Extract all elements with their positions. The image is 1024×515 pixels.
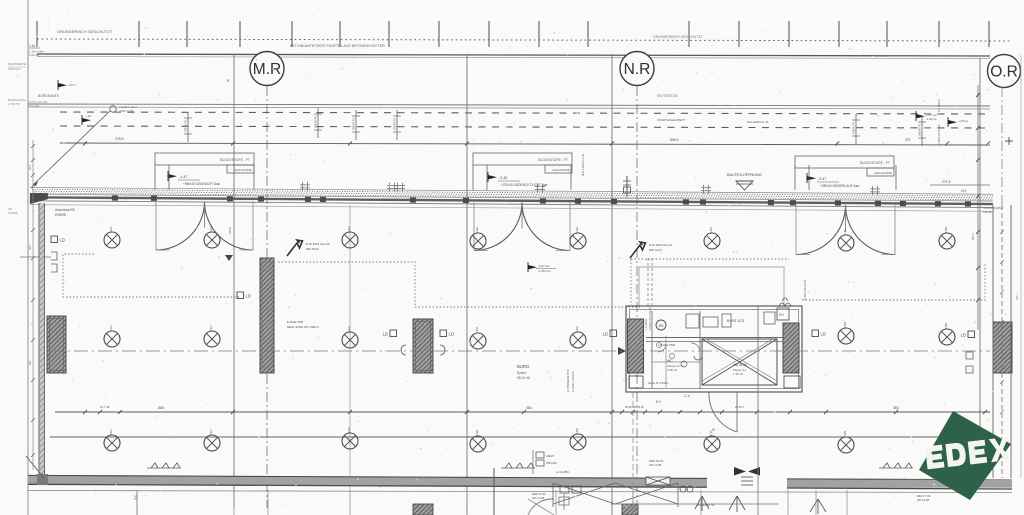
svg-text:GESCHOSSE: GESCHOSSE bbox=[552, 168, 570, 172]
svg-text:98.10 m2: 98.10 m2 bbox=[517, 376, 531, 380]
svg-text:LD: LD bbox=[961, 333, 966, 338]
window hash mark x=305 bbox=[300, 182, 310, 191]
basin circles bbox=[657, 343, 662, 348]
lamp 1 r1 x=112 bbox=[104, 226, 120, 249]
svg-text:-1.47: -1.47 bbox=[179, 175, 187, 179]
exterior north wall band bbox=[30, 180, 993, 211]
pier column P2 bbox=[260, 258, 274, 373]
ceiling outline over core bbox=[631, 258, 789, 260]
main dimension chain bbox=[60, 137, 990, 146]
window hash mark x=706 bbox=[701, 185, 711, 194]
below-wall pier 1 bbox=[413, 504, 433, 515]
svg-text:GRUNDERISCH GESCHUTZT: GRUNDERISCH GESCHUTZT bbox=[57, 29, 113, 34]
south-west corner block bbox=[37, 474, 48, 485]
svg-text:BETONKANTE/TIEFE FUNFTEL AUS B: BETONKANTE/TIEFE FUNFTEL AUS BETONDECK/C… bbox=[290, 44, 385, 48]
door jamb line x=896 bbox=[895, 165, 897, 190]
svg-text:M24 4 3/0x2.0 2.35: M24 4 3/0x2.0 2.35 bbox=[581, 153, 585, 176]
door jamb line x=473 bbox=[472, 165, 474, 190]
door jamb line x=487 bbox=[486, 165, 488, 190]
level flag door 3 bbox=[807, 173, 816, 183]
strong vertical x=494 bbox=[493, 468, 495, 515]
svg-text:SOKRATESWEG: SOKRATESWEG bbox=[983, 206, 1003, 210]
svg-text:279: 279 bbox=[905, 138, 911, 142]
interior dimension chain bbox=[55, 405, 990, 414]
wall junction block x=258 bbox=[258, 196, 264, 201]
south wall base line bbox=[28, 491, 1012, 493]
small arrow marker at grid M jamb bbox=[225, 255, 233, 261]
svg-text:BLOCKSTUFE - FT: BLOCKSTUFE - FT bbox=[220, 158, 250, 162]
svg-text:MS: MS bbox=[658, 324, 664, 328]
wall junction block x=112 bbox=[112, 195, 118, 200]
WC core west niche box bbox=[629, 376, 643, 388]
axis M.R dashed centerline bbox=[266, 86, 268, 508]
svg-text:4.7M/7Y8: 4.7M/7Y8 bbox=[8, 102, 20, 106]
svg-text:OK=-0.08: OK=-0.08 bbox=[532, 496, 544, 500]
svg-text:1.14: 1.14 bbox=[29, 44, 35, 48]
LD outlet left wall bbox=[51, 236, 65, 243]
left margin line bbox=[27, 0, 29, 515]
service zone rect above core bbox=[639, 267, 784, 306]
stub vertical x=701 bbox=[700, 490, 702, 515]
svg-text:M.R: M.R bbox=[253, 61, 281, 78]
svg-text:-2.40: -2.40 bbox=[499, 176, 507, 180]
svg-text:BURO: BURO bbox=[517, 364, 530, 369]
fork symbol 3 bbox=[695, 496, 709, 511]
lamp 5 r1 x=947 bbox=[939, 227, 955, 250]
svg-text:E-ROE 35/8: E-ROE 35/8 bbox=[287, 320, 304, 324]
svg-text:298.40 PN: 298.40 PN bbox=[393, 118, 397, 130]
wall junction block x=151 bbox=[151, 196, 157, 201]
step mark x=505 bbox=[501, 463, 535, 468]
svg-text:REAL 30/40 OK=-600.2: REAL 30/40 OK=-600.2 bbox=[287, 325, 319, 329]
EDEX watermark diamond bbox=[919, 411, 1011, 500]
lamp 1 r3 x=350 bbox=[342, 427, 358, 450]
wall bracket symbols left bbox=[51, 252, 57, 260]
svg-text:WA 25.96: WA 25.96 bbox=[733, 363, 747, 367]
property boundary line bbox=[37, 54, 990, 56]
lamp 1 r2 x=112 bbox=[104, 325, 120, 348]
svg-text:308 K/0Z: 308 K/0Z bbox=[546, 461, 557, 465]
WC axis vertical bbox=[757, 306, 759, 515]
lamp 3 r1 x=478 bbox=[470, 227, 486, 250]
core door arc bbox=[709, 392, 737, 432]
svg-text:67M/98: 67M/98 bbox=[55, 213, 66, 217]
svg-text:A: A bbox=[709, 430, 712, 435]
svg-text:BORDKANTE: BORDKANTE bbox=[38, 94, 60, 98]
lamp axis dash-dot line bbox=[50, 350, 990, 352]
pier right edge P6 bbox=[993, 322, 1012, 373]
riser dashed pair bbox=[647, 258, 649, 306]
svg-text:46 36 29a 16 40: 46 36 29a 16 40 bbox=[625, 405, 644, 409]
door jamb line x=254 bbox=[253, 165, 255, 190]
svg-text:GESCHOSSE: GESCHOSSE bbox=[234, 168, 252, 172]
svg-text:BLOCKSTUFE - FT: BLOCKSTUFE - FT bbox=[860, 161, 890, 165]
svg-text:OK=-0.08: OK=-0.08 bbox=[649, 463, 661, 467]
X-box on wall bbox=[646, 477, 670, 485]
svg-text:E.V: E.V bbox=[656, 400, 662, 404]
svg-text:+10: +10 bbox=[86, 114, 91, 118]
svg-text:-2.47: -2.47 bbox=[818, 177, 826, 181]
corner arc mark bbox=[528, 499, 554, 515]
door jamb line x=809 bbox=[808, 165, 810, 190]
svg-text:278.5: 278.5 bbox=[115, 137, 124, 141]
svg-text:298.40 PN: 298.40 PN bbox=[184, 120, 188, 132]
lamp 1 r3 x=212 bbox=[204, 429, 220, 452]
core interior partition lines bbox=[651, 311, 653, 389]
stub vertical x=268 bbox=[267, 490, 269, 515]
lamp row 3 line bbox=[50, 436, 990, 438]
stub vertical x=556 bbox=[555, 490, 557, 515]
stub vertical x=633 bbox=[632, 490, 634, 515]
door jamb line x=169 bbox=[168, 165, 170, 190]
hash cluster above band x=627 bbox=[623, 176, 631, 197]
svg-text:0.68 m2: 0.68 m2 bbox=[667, 368, 678, 372]
svg-text:298.40 PN: 298.40 PN bbox=[918, 124, 922, 136]
svg-text:1.35 m2: 1.35 m2 bbox=[733, 372, 744, 376]
entrance threshold line bbox=[611, 503, 779, 505]
svg-text:90: 90 bbox=[226, 78, 230, 82]
svg-text:LD: LD bbox=[246, 294, 251, 299]
stub vertical x=816 bbox=[815, 490, 817, 515]
svg-text:B 30/4.140 A3.05: B 30/4.140 A3.05 bbox=[803, 280, 807, 300]
annotation cluster E-W 3022 bbox=[630, 242, 646, 258]
grid vertical M (solid) bbox=[233, 54, 235, 508]
MS symbol bbox=[656, 320, 666, 330]
west exterior wall bbox=[38, 203, 40, 474]
double door swing 3 bbox=[796, 205, 846, 255]
svg-text:384: 384 bbox=[526, 406, 532, 410]
svg-text:-2.67 am: -2.67 am bbox=[538, 264, 550, 268]
wall junction block x=790 bbox=[790, 200, 796, 205]
svg-text:CH: CH bbox=[961, 189, 966, 193]
svg-text:+950/40 GEDRUCKT Aaa: +950/40 GEDRUCKT Aaa bbox=[183, 182, 220, 186]
east wall dimension ticks bbox=[1000, 230, 1004, 234]
axis circle O.R bbox=[988, 55, 1021, 88]
stub vertical x=467 bbox=[466, 490, 468, 515]
wall junction block x=611 bbox=[611, 199, 617, 204]
street centerline (dashed) lower bbox=[60, 126, 985, 128]
shaft with cross bracing bbox=[702, 339, 777, 385]
stub vertical x=788 bbox=[787, 490, 789, 515]
wall junction block x=768 bbox=[768, 200, 774, 205]
hanging boxes below wall left of entrance bbox=[560, 486, 569, 493]
secondary dimension right bbox=[930, 184, 990, 186]
svg-text:2.35x2.05 D.35a: 2.35x2.05 D.35a bbox=[937, 124, 941, 145]
svg-text:+10 m: +10 m bbox=[68, 83, 77, 87]
south wall east segment bbox=[787, 479, 1012, 489]
corner diagonal tick bbox=[26, 456, 44, 478]
svg-text:LD: LD bbox=[60, 238, 65, 243]
window hash mark x=875 bbox=[870, 186, 880, 195]
svg-text:29 30 4: 29 30 4 bbox=[735, 405, 744, 409]
wall junction block x=965 bbox=[965, 201, 971, 206]
level flag door 1 bbox=[168, 171, 177, 181]
window hash mark x=540 bbox=[535, 184, 545, 193]
svg-text:E-W 3022 04+1/2: E-W 3022 04+1/2 bbox=[649, 243, 673, 247]
svg-text:BLOCKSTUFE - FT: BLOCKSTUFE - FT bbox=[538, 158, 568, 162]
svg-text:Anschluss EB: Anschluss EB bbox=[55, 208, 75, 212]
WC core east niche box bbox=[784, 376, 800, 388]
survey dotted line with station ticks bbox=[37, 21, 1010, 48]
grid vertical mid (solid) bbox=[466, 54, 468, 515]
survey mark cluster x=922 bbox=[918, 116, 927, 146]
squiggle vent symbols bbox=[779, 303, 791, 306]
wall junction block x=835 bbox=[835, 200, 841, 205]
survey mark cluster x=397 bbox=[393, 110, 402, 140]
south exterior wall west segment bbox=[28, 476, 707, 488]
svg-text:7.51 NN: 7.51 NN bbox=[29, 104, 39, 108]
door bowtie symbol bbox=[734, 467, 760, 476]
entrance dashed axis bbox=[632, 392, 634, 515]
svg-text:E-W 3021 04+1/2: E-W 3021 04+1/2 bbox=[306, 242, 330, 246]
grid vertical N (solid) bbox=[611, 54, 613, 515]
lamp 2 r2 x=478 bbox=[470, 327, 486, 350]
svg-text:CH: CH bbox=[779, 313, 784, 317]
lamp 1 r1 x=350 bbox=[342, 226, 358, 249]
svg-text:I-Profile 55/8: I-Profile 55/8 bbox=[658, 343, 675, 347]
fork symbol 1 bbox=[729, 496, 745, 512]
plus mark right bbox=[1005, 140, 1013, 142]
svg-text:+280/40 NIEDERLAUF Aaa: +280/40 NIEDERLAUF Aaa bbox=[820, 184, 859, 188]
survey mark cluster x=318 bbox=[314, 108, 323, 138]
svg-text:A 2.30x2.0: A 2.30x2.0 bbox=[937, 98, 941, 112]
right vertical dimension chain bbox=[937, 85, 980, 330]
flag cluster right 2 bbox=[948, 117, 957, 127]
svg-text:BODENST 02: BODENST 02 bbox=[697, 503, 715, 507]
window hash mark x=400 bbox=[395, 183, 405, 192]
svg-text:A-LINE 1.5x3.05: A-LINE 1.5x3.05 bbox=[571, 371, 575, 392]
entrance X-brace left bbox=[553, 483, 615, 507]
svg-text:B+ES 1CS: B+ES 1CS bbox=[727, 319, 745, 323]
svg-text:KANTE: KANTE bbox=[983, 210, 992, 214]
fixture row along core top bbox=[686, 314, 699, 328]
survey mark cluster x=356 bbox=[352, 110, 361, 140]
BLOCKSTUFE box 3 bbox=[795, 156, 894, 176]
double door swing 1 bbox=[156, 202, 205, 251]
suspended ceiling outline main room bbox=[278, 262, 640, 307]
svg-text:281.7: 281.7 bbox=[1015, 293, 1019, 300]
wall junction block x=900 bbox=[900, 201, 906, 206]
svg-text:OK=-0.28: OK=-0.28 bbox=[917, 498, 929, 502]
step mark x=151 bbox=[147, 463, 181, 468]
axis circle M.R bbox=[250, 52, 284, 86]
street centerline (dashed) upper bbox=[60, 112, 985, 114]
double circle on base line bbox=[680, 486, 686, 492]
stub vertical x=234 bbox=[233, 490, 235, 515]
svg-text:C.V: C.V bbox=[684, 394, 691, 398]
light vertical x=350 bbox=[349, 205, 351, 490]
svg-text:298.40 PN: 298.40 PN bbox=[314, 116, 318, 128]
svg-text:SPARTENHEIZBETT: SPARTENHEIZBETT bbox=[657, 118, 686, 122]
wall junction block x=700 bbox=[700, 199, 706, 204]
wall junction block x=540 bbox=[540, 198, 546, 203]
svg-text:SICHTKANTE: SICHTKANTE bbox=[8, 62, 26, 66]
svg-text:300 SC/3: 300 SC/3 bbox=[306, 247, 319, 251]
svg-text:1.51 NN: 1.51 NN bbox=[29, 53, 39, 57]
svg-text:1-0.9h/29: 1-0.9h/29 bbox=[644, 318, 648, 330]
EDEX watermark text (drawn glyphs) bbox=[925, 437, 1011, 469]
wall junction block x=227 bbox=[227, 196, 233, 201]
svg-text:O.R: O.R bbox=[990, 64, 1018, 81]
level flag door 2 bbox=[488, 172, 497, 182]
door jamb line x=155 bbox=[154, 165, 156, 190]
wall junction block x=875 bbox=[875, 201, 881, 206]
step mark x=883 bbox=[879, 463, 913, 468]
svg-text:300 SC/3: 300 SC/3 bbox=[649, 248, 662, 252]
wall junction block x=320 bbox=[320, 197, 326, 202]
west wall pier hatched bbox=[47, 316, 66, 373]
wall corner wedge left bbox=[30, 193, 48, 204]
svg-text:28.5: 28.5 bbox=[28, 164, 32, 170]
svg-text:GE57A/07: GE57A/07 bbox=[8, 67, 21, 71]
svg-text:LD: LD bbox=[603, 332, 608, 337]
grid vertical O (solid) bbox=[979, 58, 981, 478]
svg-text:LD: LD bbox=[821, 332, 826, 337]
lamp 1 r1 x=212 bbox=[204, 226, 220, 249]
street curb double line bbox=[28, 104, 990, 106]
WC core pier east bbox=[783, 323, 799, 373]
svg-text:298.40 PN: 298.40 PN bbox=[352, 118, 356, 130]
lamp 5 r2 x=846 bbox=[838, 322, 854, 345]
wall junction block x=305 bbox=[305, 197, 311, 202]
survey mark cluster x=188 bbox=[184, 112, 193, 142]
svg-text:-1.36 mm: -1.36 mm bbox=[538, 269, 551, 273]
svg-text:BAUTEILOFFNUNG: BAUTEILOFFNUNG bbox=[727, 173, 762, 177]
stub vertical x=350 bbox=[349, 490, 351, 515]
svg-text:67M/98: 67M/98 bbox=[8, 211, 18, 215]
WC core outer walls bbox=[626, 306, 802, 392]
double door swing 2 bbox=[474, 203, 522, 251]
svg-text:GESCHOSSE: GESCHOSSE bbox=[874, 171, 892, 175]
entrance X-brace right bbox=[615, 483, 678, 507]
lamp 1 r3 x=112 bbox=[104, 429, 120, 452]
WC door arcs inside bbox=[658, 344, 666, 352]
lamp 3 r3 x=478 bbox=[470, 430, 486, 453]
WC core pier west bbox=[628, 319, 644, 373]
axis O.R dashed centerline bbox=[1001, 87, 1003, 205]
GMAT cluster above wall bbox=[536, 452, 544, 458]
door jamb line x=571 bbox=[570, 165, 572, 190]
suspended ceiling outline left room bbox=[63, 254, 240, 297]
svg-text:LD: LD bbox=[383, 332, 388, 337]
wall junction block x=575 bbox=[575, 199, 581, 204]
BLOCKSTUFE box 1 bbox=[155, 153, 254, 173]
ceiling outline right segment bbox=[802, 263, 985, 300]
BLOCKSTUFE box 2 bbox=[473, 153, 572, 173]
lamp 4 r1 x=846 bbox=[838, 229, 854, 252]
small elevation flag on slope bbox=[82, 115, 91, 125]
fork symbol 2 bbox=[810, 499, 826, 514]
svg-text:GMA/T: GMA/T bbox=[546, 454, 555, 458]
svg-text:+0.41 FBC: +0.41 FBC bbox=[556, 470, 569, 474]
window hash mark x=392 bbox=[387, 182, 397, 191]
lamp 1 r2 x=212 bbox=[204, 325, 220, 348]
lamp 2 r1 x=712 bbox=[704, 227, 720, 250]
lamp 2 r2 x=578 bbox=[570, 326, 586, 349]
svg-text:E-STANGEN B 50: E-STANGEN B 50 bbox=[566, 369, 570, 392]
svg-text:Eptern: Eptern bbox=[517, 371, 527, 375]
wall junction block x=935 bbox=[935, 201, 941, 206]
elevation note centre bbox=[528, 262, 537, 272]
pier column P3 bbox=[413, 319, 433, 373]
LD box near pier bbox=[237, 292, 251, 299]
svg-text:350.7: 350.7 bbox=[971, 233, 975, 240]
svg-text:LD: LD bbox=[449, 332, 454, 337]
svg-text:298.40 PN: 298.40 PN bbox=[852, 122, 856, 134]
axis N.R dashed centerline bbox=[636, 86, 638, 515]
svg-text:+1.50 im: +1.50 im bbox=[958, 119, 968, 123]
svg-text:465: 465 bbox=[28, 360, 32, 365]
axis circle N.R bbox=[620, 52, 654, 86]
svg-text:12 7 36: 12 7 36 bbox=[100, 405, 110, 409]
wall junction block x=683 bbox=[683, 199, 689, 204]
svg-text:WC: WC bbox=[667, 359, 673, 363]
lamp A r3 x=712 bbox=[704, 430, 720, 453]
survey mark cluster x=856 bbox=[852, 114, 861, 144]
svg-text:185.8: 185.8 bbox=[228, 227, 232, 234]
svg-text:28.5: 28.5 bbox=[28, 244, 32, 250]
lamp 2 r3 x=578 bbox=[570, 428, 586, 451]
small flag near top boundary bbox=[58, 80, 67, 90]
svg-text:SICHTBETON: SICHTBETON bbox=[657, 94, 678, 98]
svg-text:N.R: N.R bbox=[624, 61, 651, 78]
svg-text:A 30/4.140 17h3.05: A 30/4.140 17h3.05 bbox=[648, 307, 652, 330]
stub vertical x=847 bbox=[846, 490, 848, 515]
below-wall pier 2 bbox=[622, 504, 638, 515]
wall junction block x=410 bbox=[410, 197, 416, 202]
svg-text:BALDERICH 40: BALDERICH 40 bbox=[747, 120, 769, 124]
svg-text:271.5: 271.5 bbox=[942, 180, 951, 184]
annotation cluster E-W 3021 bbox=[287, 240, 303, 256]
leader diagonal to wall corner bbox=[33, 111, 110, 185]
flag cluster right 1 bbox=[916, 111, 925, 121]
svg-text:Wand B 175/8 a: Wand B 175/8 a bbox=[648, 381, 668, 385]
lamp 5 r2 x=947 bbox=[939, 323, 955, 346]
svg-text:-1.06 mm: -1.06 mm bbox=[926, 117, 937, 121]
west outside dimension chain bbox=[32, 140, 34, 470]
wall junction block x=463 bbox=[463, 198, 469, 203]
svg-text:865: 865 bbox=[158, 406, 164, 410]
svg-text:384: 384 bbox=[893, 406, 899, 410]
LD boxes around core bbox=[603, 330, 617, 337]
svg-text:5.70 m uber NN: 5.70 m uber NN bbox=[29, 100, 47, 104]
east wall lines bbox=[992, 205, 994, 478]
door jamb line x=795 bbox=[794, 165, 796, 190]
svg-text:896.5: 896.5 bbox=[670, 138, 679, 142]
svg-text:-0.81 muM: -0.81 muM bbox=[119, 109, 134, 113]
lamp 5 r3 x=846 bbox=[838, 431, 854, 454]
svg-text:GRUNDERISCH GESCHUTZT: GRUNDERISCH GESCHUTZT bbox=[653, 35, 704, 39]
section arrow at core west bbox=[618, 347, 626, 355]
lamp 3 r1 x=578 bbox=[570, 227, 586, 250]
leader circle with elevation note bbox=[110, 106, 116, 112]
lamp 1 r2 x=350 bbox=[342, 326, 358, 349]
